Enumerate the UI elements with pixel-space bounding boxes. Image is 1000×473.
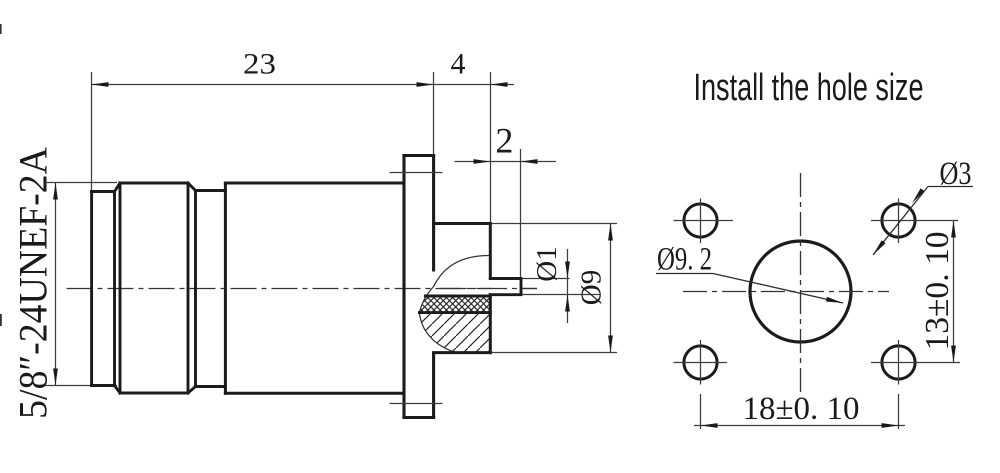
dim text 4: [451, 48, 466, 81]
thread dimension line: [53, 183, 58, 386]
dim O9 line: [608, 224, 613, 353]
centerline overlay through pin: [440, 288, 537, 290]
dim text 18: [743, 391, 860, 427]
thread spec text 5/8"-24UNEF-2A: [12, 147, 56, 419]
svg-text:23: 23: [243, 48, 276, 81]
dim text O1: [531, 246, 563, 281]
center pin: [490, 279, 521, 295]
mounting hole bottom-left: [674, 340, 728, 385]
svg-text:Ø9. 2: Ø9. 2: [657, 242, 712, 278]
edge artifact tick top-left: [0, 24, 2, 34]
svg-text:5/8″-24UNEF-2A: 5/8″-24UNEF-2A: [12, 147, 56, 419]
insulator cross-hatch band fill: [419, 296, 490, 313]
edge artifact tick mid-left: [0, 314, 2, 326]
mounting hole top-left: [674, 199, 734, 244]
dim O9 extension lines: [492, 224, 617, 353]
mounting hole bottom-right: [871, 340, 960, 385]
label O3 with leader: [871, 156, 973, 256]
dim 18 extension lines: [701, 394, 899, 429]
insulator diagonal hatch dome fill: [419, 313, 490, 353]
svg-text:18±0. 10: 18±0. 10: [743, 391, 860, 427]
dim text 13: [919, 232, 956, 351]
center hole vertical centerline: [800, 173, 802, 397]
svg-text:13±0. 10: 13±0. 10: [919, 232, 956, 351]
dim O1 line: [565, 249, 570, 323]
centerline of connector: [67, 288, 538, 290]
main body: [225, 183, 404, 393]
cross-hatch band borders: [419, 296, 490, 313]
svg-text:Install the hole size: Install the hole size: [694, 65, 924, 108]
label O9.2 with leader: [656, 242, 844, 306]
collar (rear nut end): [92, 192, 115, 386]
dim 18 line: [694, 423, 905, 428]
dim line 23 and 4: [92, 82, 515, 87]
dim text 23: [243, 48, 276, 81]
svg-text:4: 4: [451, 48, 466, 81]
flange corner edge thin lines: [390, 173, 443, 404]
title Install the hole size: [694, 65, 924, 108]
center hole circle O9.2: [750, 241, 851, 342]
dim line 2: [455, 159, 557, 164]
svg-text:Ø9: Ø9: [576, 270, 608, 305]
dim text O9: [576, 270, 608, 305]
insulator dome boundary curve: [419, 255, 490, 352]
flange plate: [404, 156, 434, 418]
dim 13 line: [951, 221, 956, 363]
thread dimension extension lines: [45, 183, 117, 386]
center hole horizontal centerline: [683, 291, 889, 293]
dim text 2: [495, 121, 513, 161]
dim 23 extension lines: [92, 72, 521, 277]
coupling nut with chamfer lines: [115, 183, 196, 393]
groove section: [196, 191, 226, 387]
mounting hole top-right: [871, 199, 958, 244]
insulator housing outline: [434, 224, 491, 353]
dim O1 extension lines: [522, 279, 600, 295]
svg-text:2: 2: [495, 121, 513, 161]
svg-text:Ø1: Ø1: [531, 246, 563, 281]
